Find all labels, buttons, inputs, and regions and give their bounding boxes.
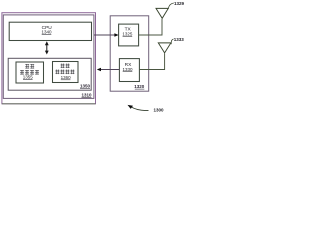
arrowhead into device <box>97 68 101 72</box>
svg-text:1340: 1340 <box>41 30 52 35</box>
svg-text:1300: 1300 <box>154 107 165 112</box>
svg-text:1360: 1360 <box>61 75 72 80</box>
wire TX to antenna 1329 <box>139 19 162 35</box>
svg-text:1330: 1330 <box>122 67 133 72</box>
text 程序 row <box>61 64 65 69</box>
program storage block 1360 <box>53 62 79 83</box>
outer box bottom edge green tint <box>2 103 96 105</box>
svg-text:1320: 1320 <box>134 84 145 89</box>
svg-text:1350: 1350 <box>80 84 91 89</box>
svg-text:1355: 1355 <box>23 75 34 80</box>
antenna 1333 <box>158 43 171 53</box>
RX block 1330 <box>119 59 139 82</box>
arrowhead into TX <box>114 33 118 37</box>
label 1329 leader <box>168 3 174 9</box>
svg-text:1329: 1329 <box>174 1 185 6</box>
antenna 1329 <box>156 8 168 18</box>
svg-text:1310: 1310 <box>81 93 92 98</box>
device box 1310 <box>3 15 94 99</box>
text 存储装置 row <box>55 70 59 75</box>
svg-text:1333: 1333 <box>174 37 185 42</box>
data storage block 1355 <box>16 62 44 83</box>
wire RX to antenna 1333 <box>139 53 164 69</box>
wire device to TX <box>94 34 117 36</box>
outer device box (system 1300 boundary) <box>2 13 96 104</box>
text 存储装置 row <box>20 70 24 75</box>
bidirectional arrow CPU-memory <box>46 43 48 52</box>
memory box 1350 <box>8 58 91 90</box>
text 数据 row <box>25 64 29 69</box>
system reference arrow 1300 <box>130 106 148 110</box>
wire RX to device <box>99 69 119 71</box>
transceiver box 1320 <box>110 16 149 91</box>
CPU block 1340 <box>9 22 91 40</box>
label 1333 leader <box>171 39 173 44</box>
TX block 1325 <box>119 24 139 46</box>
svg-text:1325: 1325 <box>122 31 133 36</box>
